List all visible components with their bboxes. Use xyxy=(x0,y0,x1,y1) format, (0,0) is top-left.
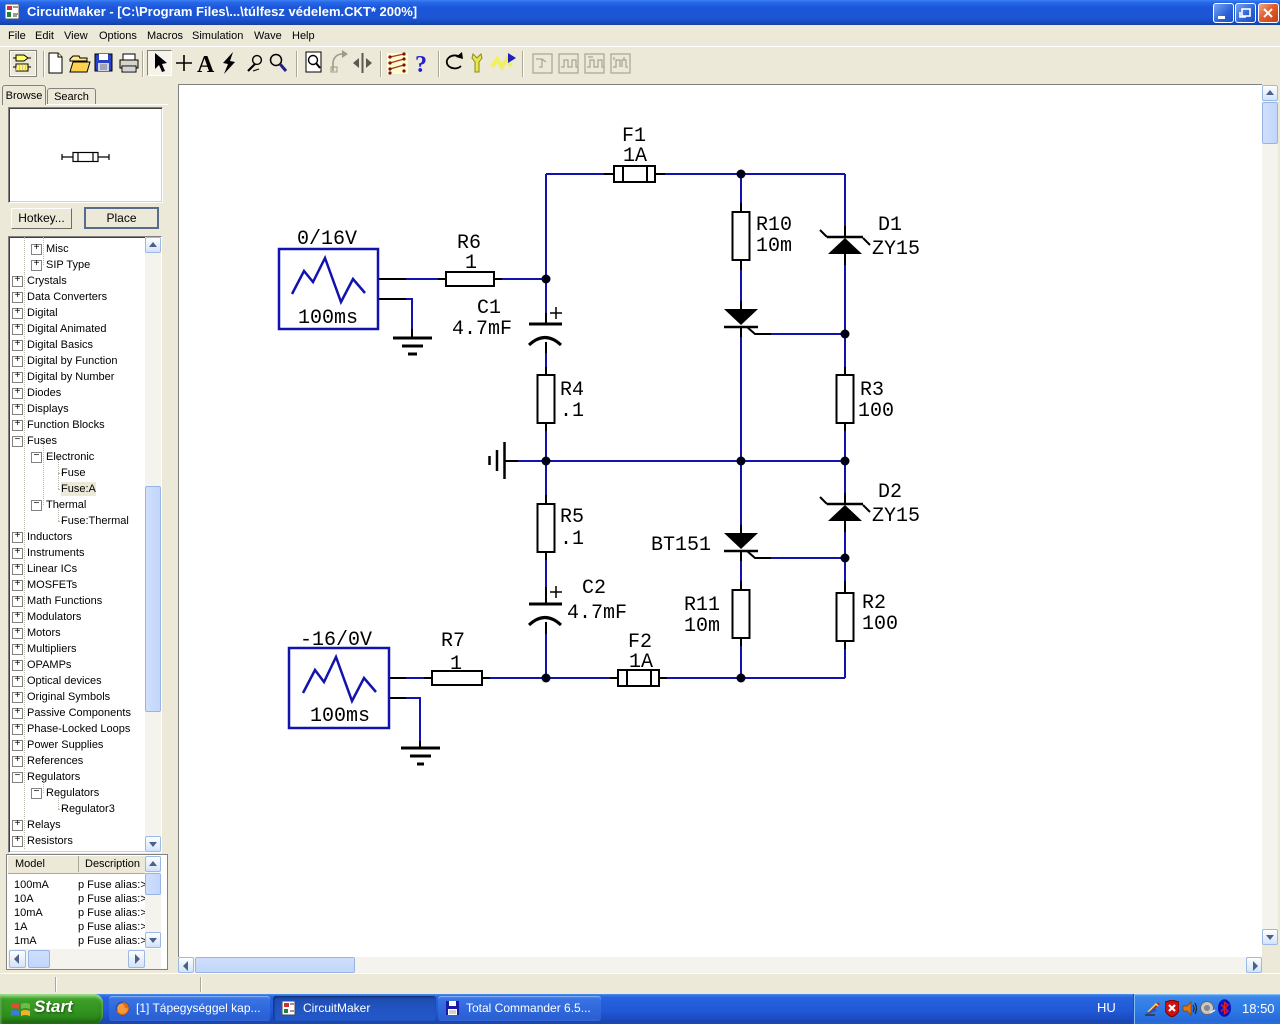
reset (circular arrow) xyxy=(447,55,461,68)
pin leads R3 xyxy=(844,367,846,431)
wire source V2 to ground xyxy=(406,697,420,743)
wire source V1 to R6 xyxy=(406,278,546,280)
thyristor SCR1 xyxy=(724,309,771,334)
table v scrollbar xyxy=(145,856,161,948)
component tree xyxy=(8,236,162,853)
svg-text:10m: 10m xyxy=(684,615,720,638)
svg-text:R5: R5 xyxy=(560,506,584,529)
svg-text:100ms: 100ms xyxy=(310,705,370,728)
tabs xyxy=(2,85,46,105)
svg-text:C2: C2 xyxy=(582,577,606,600)
resistor R7 xyxy=(432,671,482,685)
svg-text:100: 100 xyxy=(858,400,894,423)
ground below V2 xyxy=(401,741,440,764)
wire source V1 to ground xyxy=(406,298,412,331)
speaker icon xyxy=(1182,1001,1198,1016)
probe xyxy=(248,64,255,71)
preview box xyxy=(8,107,163,203)
junction at mid bus / SCR rail xyxy=(737,457,746,466)
ati icon xyxy=(1145,1001,1161,1017)
resistor R2 xyxy=(837,593,854,641)
TOOLBAR xyxy=(0,46,1280,85)
svg-text:R4: R4 xyxy=(560,379,584,402)
svg-text:1A: 1A xyxy=(629,651,653,674)
bluetooth icon xyxy=(1218,999,1231,1017)
svg-text:ZY15: ZY15 xyxy=(872,238,920,261)
LEFT PANEL xyxy=(0,84,178,973)
junction at mid bus / R4-R5 rail xyxy=(542,457,551,466)
fuse F2 xyxy=(618,670,659,686)
junction at bottom bus / R11 rail xyxy=(737,674,746,683)
pin leads D2 xyxy=(844,493,846,532)
pin leads R6 xyxy=(438,278,502,280)
task button 1 xyxy=(109,996,270,1021)
select tool button (sunken) xyxy=(148,51,172,76)
print xyxy=(120,60,138,68)
pin leads R2 xyxy=(844,581,846,649)
table h scrollbar xyxy=(8,949,161,969)
junction at bottom bus / C2 rail xyxy=(542,674,551,683)
svg-text:100: 100 xyxy=(862,613,898,636)
svg-text:ZY15: ZY15 xyxy=(872,505,920,528)
save xyxy=(95,54,112,71)
ground below V1 xyxy=(393,329,432,354)
pin leads C1 xyxy=(545,313,547,353)
wire middle rail xyxy=(740,174,742,678)
svg-text:?: ? xyxy=(415,52,427,78)
splitter xyxy=(362,53,364,73)
CANVAS xyxy=(178,84,1280,973)
pin leads R4 xyxy=(545,367,547,431)
waveforms (yellow wave + blue arrow) xyxy=(492,59,511,67)
svg-text:A: A xyxy=(197,52,215,78)
digital option (colorful) xyxy=(387,53,408,74)
STATUS BAR xyxy=(0,973,1280,995)
page zoom xyxy=(306,52,321,72)
canvas horizontal scrollbar xyxy=(178,957,1262,973)
svg-text:R11: R11 xyxy=(684,594,720,617)
pin leads R10 xyxy=(740,203,742,270)
separators xyxy=(44,51,523,77)
junction at top bus / R10 xyxy=(737,170,746,179)
volume icon xyxy=(1200,1001,1216,1016)
svg-text:4.7mF: 4.7mF xyxy=(567,602,627,625)
wire top bus xyxy=(546,173,845,175)
model table xyxy=(6,854,168,970)
svg-text:0/16V: 0/16V xyxy=(297,228,357,251)
pin leads SCR2 xyxy=(740,525,742,561)
ground at mid bus xyxy=(490,442,519,479)
resistor R3 xyxy=(837,375,854,423)
fuse F1 xyxy=(614,166,655,182)
pin leads F2 xyxy=(610,677,667,679)
capacitor C2 xyxy=(529,586,562,625)
wire right rail xyxy=(844,174,846,678)
svg-text:100ms: 100ms xyxy=(298,307,358,330)
svg-text:.1: .1 xyxy=(560,528,584,551)
task button 2 (active) xyxy=(273,996,436,1021)
buttons xyxy=(11,208,72,229)
wire SCR2 gate to node xyxy=(771,557,845,559)
pin leads R11 xyxy=(740,581,742,646)
resistor R5 xyxy=(538,504,555,552)
bolt xyxy=(223,52,235,74)
resistor R11 xyxy=(733,590,750,638)
svg-text:R3: R3 xyxy=(860,379,884,402)
tree scrollbar xyxy=(145,237,161,852)
rotate (disabled) xyxy=(333,54,344,71)
resistor R10 xyxy=(733,212,750,260)
browse button (raised) xyxy=(10,51,37,77)
junction at V1/R6/C1 node xyxy=(542,275,551,284)
zener diode D2 xyxy=(820,497,870,521)
source V1 xyxy=(279,249,378,329)
wire mid bus xyxy=(518,460,845,462)
capacitor C1 xyxy=(529,307,562,345)
wrench (yellow) xyxy=(472,54,482,72)
wire bottom bus xyxy=(406,677,845,679)
pin leads F1 xyxy=(604,173,665,175)
pin leads C2 xyxy=(545,587,547,634)
MENU BAR xyxy=(0,25,1280,47)
junction at SCR2 gate / R2 rail xyxy=(841,554,850,563)
svg-text:D2: D2 xyxy=(878,481,902,504)
open xyxy=(70,56,87,61)
new xyxy=(49,53,62,73)
svg-text:C1: C1 xyxy=(477,297,501,320)
svg-text:.1: .1 xyxy=(560,400,584,423)
svg-text:1: 1 xyxy=(450,653,462,676)
resistor R6 xyxy=(446,272,494,286)
zener diode D1 xyxy=(820,230,870,254)
TASKBAR xyxy=(0,994,1280,1024)
pin leads SCR1 xyxy=(740,301,742,337)
svg-text:R7: R7 xyxy=(441,630,465,653)
task button 3 xyxy=(438,996,601,1021)
source V2 xyxy=(289,648,389,728)
pin leads R5 xyxy=(545,495,547,560)
svg-text:10m: 10m xyxy=(756,235,792,258)
TITLE BAR xyxy=(0,0,1280,25)
scope buttons (disabled) xyxy=(533,54,630,73)
wire left rail xyxy=(545,174,547,678)
svg-text:R2: R2 xyxy=(862,592,886,615)
svg-text:D1: D1 xyxy=(878,214,902,237)
pin leads V1 xyxy=(378,279,406,299)
junction at mid bus / R3-D2 rail xyxy=(841,457,850,466)
junction at SCR1 gate / D1 cathode rail xyxy=(841,330,850,339)
pin leads D1 xyxy=(844,226,846,265)
pin leads V2 xyxy=(389,678,406,698)
svg-text:BT151: BT151 xyxy=(651,534,711,557)
pin leads R7 xyxy=(424,677,490,679)
svg-text:-16/0V: -16/0V xyxy=(300,629,372,652)
start button xyxy=(0,994,103,1024)
wire SCR1 gate to node xyxy=(771,333,845,335)
thyristor SCR2 BT151 xyxy=(724,533,771,558)
resistor R4 xyxy=(538,375,555,423)
shield icon xyxy=(1165,1000,1179,1017)
plus xyxy=(176,55,192,71)
zoom xyxy=(271,55,282,66)
svg-text:R10: R10 xyxy=(756,214,792,237)
svg-text:1A: 1A xyxy=(623,145,647,168)
svg-text:4.7mF: 4.7mF xyxy=(452,318,512,341)
tray xyxy=(1097,1000,1116,1015)
canvas vertical scrollbar xyxy=(1262,85,1278,945)
svg-text:1: 1 xyxy=(465,252,477,275)
